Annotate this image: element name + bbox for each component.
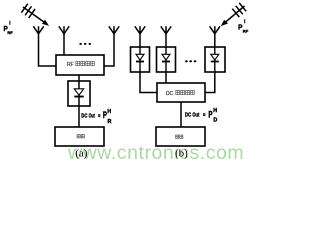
svg-text:=: =: [98, 114, 101, 120]
svg-text:H: H: [107, 109, 111, 115]
svg-text:DC: DC: [81, 114, 88, 120]
svg-text:Out: Out: [192, 112, 199, 118]
svg-text:=: =: [203, 112, 206, 118]
svg-text:P: P: [208, 109, 212, 119]
svg-text:R: R: [108, 119, 112, 125]
svg-text:P: P: [238, 22, 242, 31]
svg-text:DC: DC: [185, 112, 192, 118]
svg-text:(a): (a): [75, 148, 88, 160]
svg-text:DC: DC: [166, 91, 174, 97]
svg-text:RF: RF: [67, 62, 74, 68]
svg-text:i: i: [244, 19, 245, 24]
svg-text:D: D: [213, 118, 217, 124]
svg-text:RF: RF: [7, 30, 13, 35]
svg-text:P: P: [103, 110, 107, 120]
svg-text:(b): (b): [175, 148, 188, 160]
svg-text:Out: Out: [89, 114, 95, 120]
svg-text:RF: RF: [243, 28, 249, 33]
svg-text:i: i: [9, 21, 10, 26]
svg-text:H: H: [213, 108, 217, 114]
